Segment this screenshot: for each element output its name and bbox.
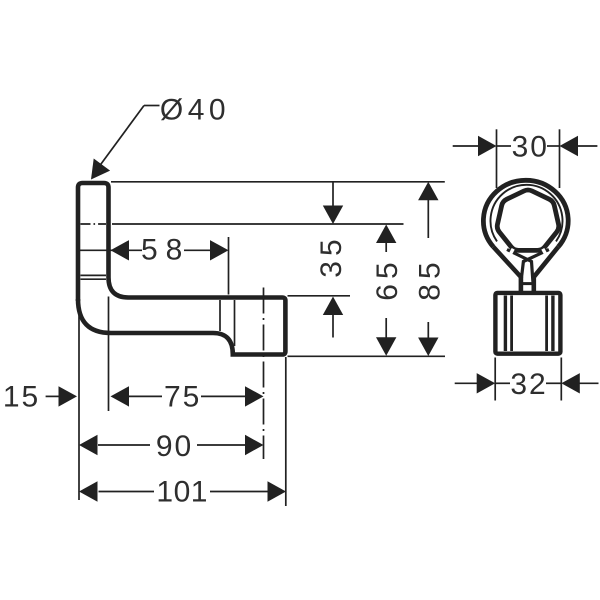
svg-text:32: 32 [510,368,547,401]
svg-text:Ø40: Ø40 [160,94,230,127]
svg-text:65: 65 [371,257,404,300]
svg-text:85: 85 [413,257,446,300]
svg-text:90: 90 [156,430,193,463]
svg-text:75: 75 [164,381,201,414]
svg-text:58: 58 [141,234,190,267]
svg-text:101: 101 [156,476,208,509]
svg-text:30: 30 [512,130,549,163]
svg-text:15: 15 [3,381,40,414]
svg-text:35: 35 [315,234,348,277]
